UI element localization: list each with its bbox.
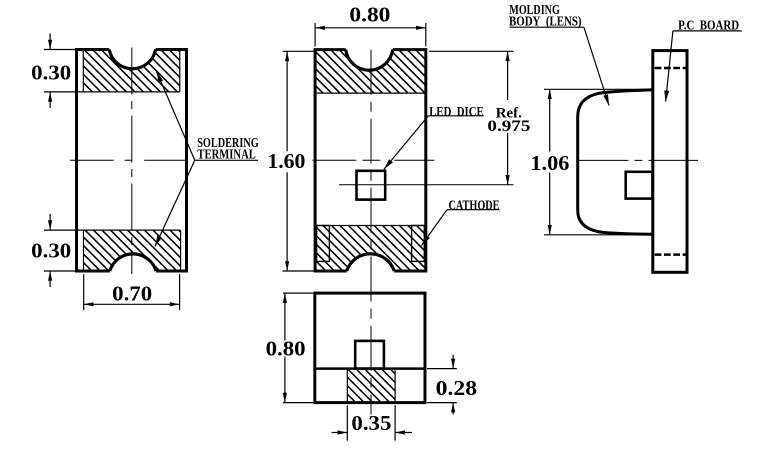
svg-text:0.28: 0.28: [436, 376, 478, 400]
svg-text:0.975: 0.975: [487, 118, 530, 135]
svg-text:LED DICE: LED DICE: [429, 105, 484, 120]
svg-text:0.80: 0.80: [349, 3, 390, 27]
svg-text:0.70: 0.70: [112, 281, 152, 305]
svg-text:0.30: 0.30: [31, 239, 71, 263]
svg-text:TERMINAL: TERMINAL: [197, 148, 256, 163]
svg-text:CATHODE: CATHODE: [449, 199, 500, 214]
svg-text:0.30: 0.30: [31, 61, 71, 85]
svg-text:BODY (LENS): BODY (LENS): [509, 15, 582, 30]
svg-text:1.06: 1.06: [530, 151, 569, 175]
svg-text:0.80: 0.80: [266, 337, 306, 361]
svg-text:1.60: 1.60: [267, 149, 305, 173]
svg-text:0.35: 0.35: [351, 411, 391, 435]
svg-text:P.C BOARD: P.C BOARD: [678, 19, 739, 34]
